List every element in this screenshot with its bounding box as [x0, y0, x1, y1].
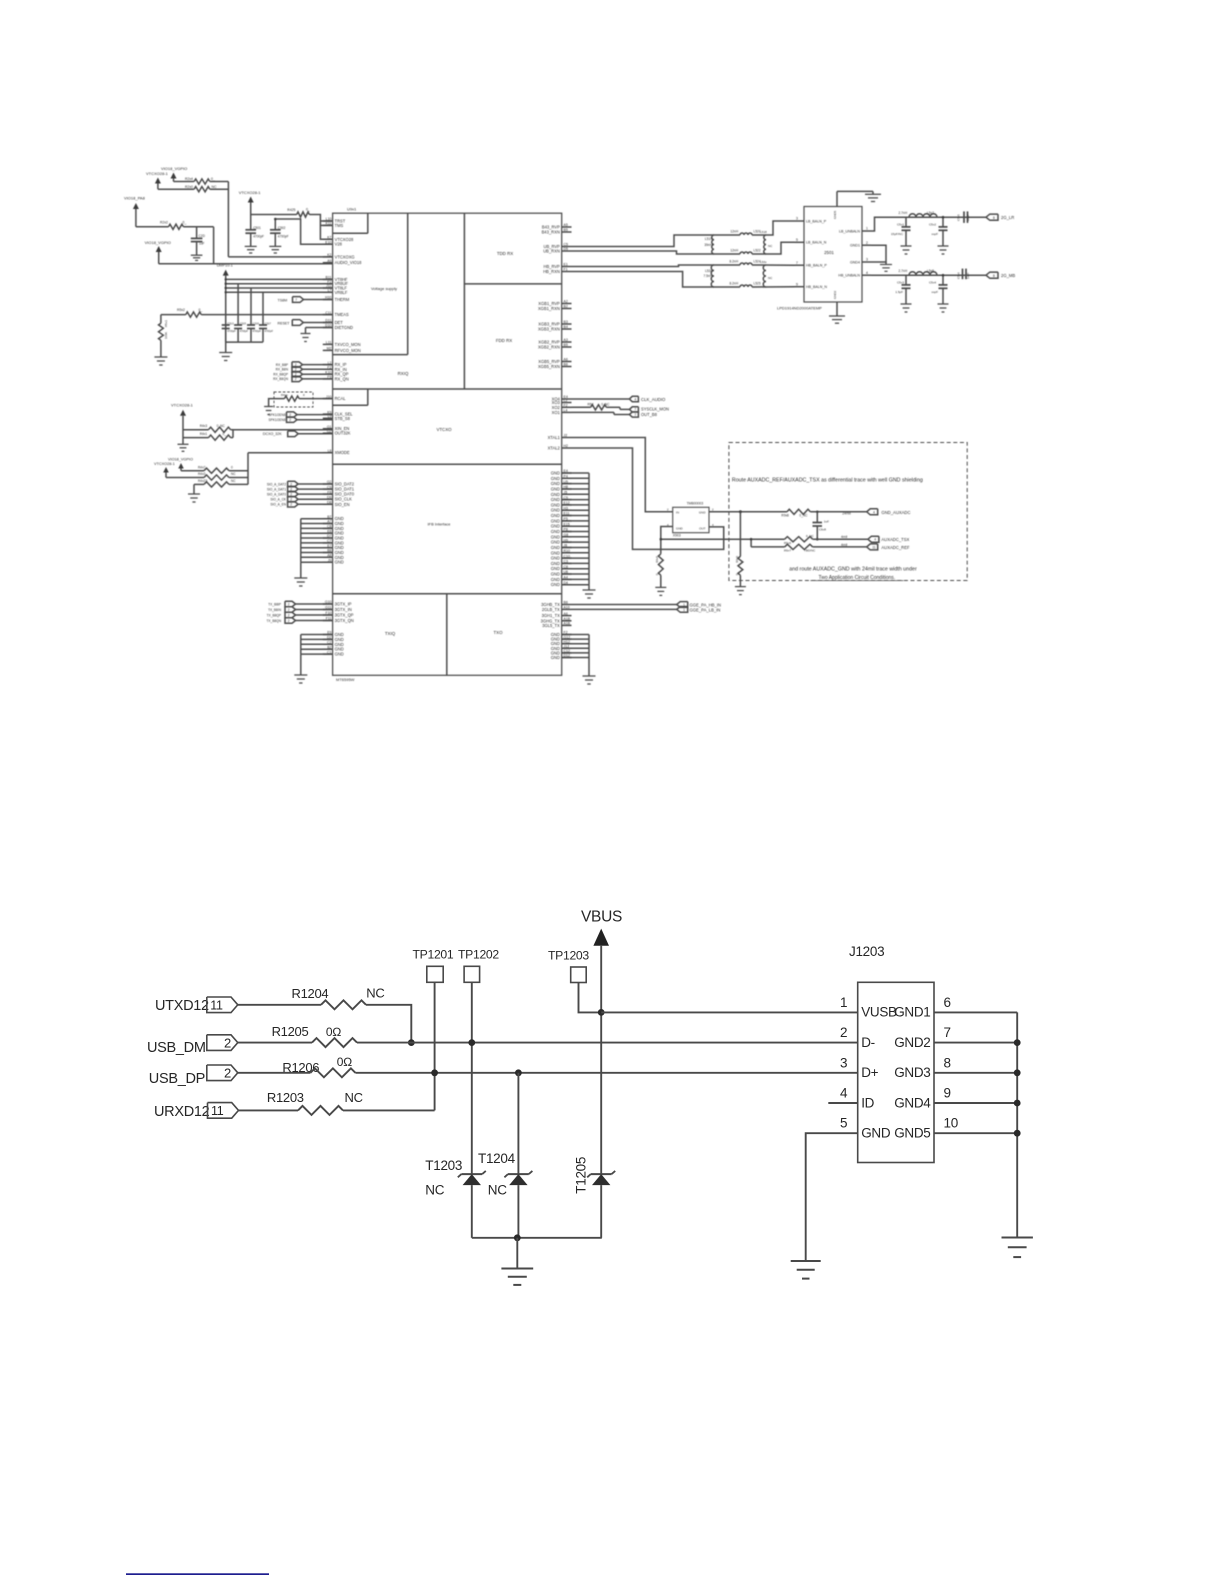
- svg-text:R425: R425: [287, 208, 295, 212]
- svg-text:B5: B5: [564, 228, 568, 232]
- cap bank value labels: [227, 321, 273, 333]
- svg-text:M2: M2: [327, 347, 332, 351]
- connector J1203 pin names: [861, 1005, 931, 1141]
- svg-text:AUXADC_REF: AUXADC_REF: [881, 545, 910, 550]
- svg-text:TP1203: TP1203: [548, 949, 589, 963]
- svg-text:11: 11: [210, 999, 223, 1013]
- resistor R4x7: [204, 468, 229, 473]
- ground under C2D: [191, 254, 203, 256]
- wire rail to R425: [251, 214, 297, 216]
- svg-text:GND2: GND2: [833, 290, 837, 299]
- series inductor L520 12nH top: [740, 233, 752, 235]
- resistor R4x3 b: [204, 475, 229, 480]
- svg-text:GND: GND: [551, 572, 560, 577]
- connector J1203 box: [858, 982, 934, 1162]
- flag GGE_PA_LB_IN: [677, 607, 688, 613]
- svg-text:SIO_A_EN: SIO_A_EN: [270, 503, 286, 507]
- svg-text:R9x7: R9x7: [784, 549, 791, 553]
- svg-text:0_NC: 0_NC: [217, 424, 226, 428]
- svg-text:3GL5_TX: 3GL5_TX: [542, 623, 560, 628]
- series inductor L525 8.2nH bottom: [740, 285, 752, 287]
- svg-text:GND1: GND1: [894, 1005, 930, 1020]
- svg-text:T1203: T1203: [425, 1158, 462, 1173]
- svg-text:LB_BALN_N: LB_BALN_N: [806, 241, 827, 245]
- svg-text:12nH: 12nH: [730, 248, 738, 252]
- svg-text:A1B: A1B: [564, 622, 571, 626]
- svg-text:2: 2: [224, 1035, 231, 1050]
- svg-text:GND: GND: [335, 560, 344, 565]
- ground cap bank: [219, 352, 232, 354]
- ground xmode: [194, 483, 204, 485]
- svg-text:TMS: TMS: [335, 223, 344, 228]
- svg-text:A9: A9: [327, 259, 331, 263]
- wire to R2x2: [136, 226, 169, 228]
- IC U901 left pin stubs, numbers and names: [323, 217, 362, 656]
- svg-text:TMB00003: TMB00003: [687, 502, 704, 506]
- connector J1203 pin numbers: [840, 995, 958, 1131]
- wire UTXD12 to R1204: [238, 1004, 321, 1006]
- svg-text:9: 9: [796, 282, 798, 286]
- wire XTAL1 to crystal IN: [572, 438, 673, 512]
- connector J1203 pin5 GND wire: [806, 1133, 858, 1261]
- wire R1204 down to USB_DM row: [366, 1005, 411, 1043]
- right GND bus wires: [562, 473, 589, 585]
- svg-text:4: 4: [840, 1086, 848, 1101]
- resistor R9x6 AUXADC_TSX: [785, 537, 813, 542]
- svg-text:4: 4: [874, 538, 876, 542]
- svg-text:TX_B8QP: TX_B8QP: [267, 613, 281, 617]
- wire to AUXADC_TSX flag: [813, 538, 868, 540]
- svg-text:1xpF: 1xpF: [966, 272, 970, 279]
- svg-text:TXIQ: TXIQ: [385, 631, 396, 636]
- svg-text:R1206: R1206: [282, 1060, 319, 1075]
- test point TP1202 stem: [471, 982, 473, 1174]
- wire R1203 to TP1201 stem: [343, 1109, 435, 1111]
- svg-text:B5: B5: [564, 343, 568, 347]
- svg-text:2: 2: [224, 1066, 231, 1081]
- svg-text:U9x1: U9x1: [347, 207, 357, 212]
- svg-text:4: 4: [866, 271, 868, 275]
- svg-text:GND5: GND5: [833, 210, 837, 219]
- svg-text:LPD1914ND2000ATEMP: LPD1914ND2000ATEMP: [777, 306, 822, 311]
- svg-text:0_: 0_: [211, 177, 215, 181]
- balun bottom GND2 pin to ground: [836, 302, 838, 316]
- junction diode bus: [514, 1234, 521, 1241]
- svg-text:R2x4: R2x4: [185, 177, 193, 181]
- svg-text:3GTX_QN: 3GTX_QN: [335, 618, 354, 623]
- flags SPK CLK_SEL STB: [268, 412, 332, 423]
- svg-text:4: 4: [634, 397, 636, 401]
- svg-text:VUSB: VUSB: [861, 1005, 897, 1020]
- svg-text:0: 0: [303, 393, 305, 397]
- svg-text:5: 5: [796, 238, 798, 242]
- svg-text:xxpF: xxpF: [931, 232, 938, 236]
- wire 3GHB_TX to GGE flag: [572, 604, 677, 606]
- svg-text:3GTX_QP: 3GTX_QP: [335, 613, 354, 618]
- svg-text:C5x5: C5x5: [957, 214, 961, 221]
- crystal oscillator X903 box: [673, 507, 709, 532]
- capacitor C5x3 shunt: [905, 275, 907, 285]
- wire L520 to balun pin3: [752, 221, 795, 235]
- svg-text:2: 2: [840, 1025, 847, 1040]
- resistor R1203: [298, 1106, 343, 1115]
- capacitor C5x1 shunt: [905, 217, 907, 227]
- svg-text:TS8M: TS8M: [278, 299, 288, 303]
- resistor R5x 0_NC clock: [572, 406, 591, 408]
- svg-text:L2: L2: [564, 399, 568, 403]
- svg-text:USB_DP: USB_DP: [149, 1071, 205, 1087]
- svg-text:L5x8: L5x8: [927, 269, 934, 273]
- svg-text:TX_B8IN: TX_B8IN: [268, 608, 282, 612]
- svg-text:HB_BALN_N: HB_BALN_N: [806, 285, 827, 289]
- svg-text:GND: GND: [551, 550, 560, 555]
- wire RCAL left to ground: [269, 399, 285, 407]
- svg-text:0_NC: 0_NC: [806, 534, 815, 538]
- junction T1204/USB_DP: [515, 1069, 522, 1076]
- svg-text:J1203: J1203: [849, 944, 884, 959]
- power arrow VIO18_VGPIO: [171, 173, 177, 179]
- series inductor L524 8.2nH top: [740, 263, 752, 265]
- svg-text:GND: GND: [551, 561, 560, 566]
- svg-text:GGE_PA_LB_IN: GGE_PA_LB_IN: [690, 607, 721, 612]
- ground under R9x9: [735, 586, 746, 588]
- svg-text:GND: GND: [676, 527, 684, 531]
- wire URXD12 to R1203: [239, 1109, 299, 1111]
- ground C5x4: [938, 303, 949, 305]
- svg-text:0Ω: 0Ω: [337, 1055, 352, 1069]
- svg-text:XGB1_RXN: XGB1_RXN: [538, 306, 560, 311]
- svg-text:2: 2: [712, 508, 714, 512]
- svg-text:R1205: R1205: [272, 1024, 309, 1039]
- svg-text:FDD RX: FDD RX: [496, 338, 512, 343]
- svg-text:3GTX_IP: 3GTX_IP: [335, 602, 352, 607]
- series inductor L5x8 2.7nH HB out: [909, 272, 937, 276]
- svg-text:D-: D-: [861, 1035, 875, 1050]
- svg-text:TP1202: TP1202: [458, 948, 499, 962]
- resistor R9x7 AUXADC_REF: [785, 544, 813, 549]
- ground under C2x1: [245, 245, 257, 247]
- flag GGE_PA_HB_IN: [677, 602, 688, 608]
- join vertical xin resistors: [232, 430, 234, 438]
- svg-text:GND: GND: [551, 497, 560, 502]
- svg-text:7.5nH: 7.5nH: [703, 274, 712, 278]
- svg-text:3GTX_IN: 3GTX_IN: [335, 607, 352, 612]
- svg-text:SPK1/2EN8: SPK1/2EN8: [268, 413, 285, 417]
- svg-text:C315: C315: [240, 321, 247, 325]
- wire HB_UNBALN output: [871, 274, 986, 276]
- IC U901 right pin stubs, numbers and names: [538, 223, 572, 660]
- svg-text:R4x3: R4x3: [198, 472, 206, 476]
- svg-text:2.7nH: 2.7nH: [898, 269, 907, 273]
- svg-text:L4: L4: [564, 409, 568, 413]
- wire USB_DM to J1203 pin2: [357, 1042, 858, 1044]
- wire HB_RXN to HB network: [572, 272, 741, 288]
- svg-text:NC: NC: [345, 1090, 363, 1105]
- wire down to AUDIO_VIO18 row: [213, 227, 215, 264]
- svg-text:GND: GND: [551, 492, 560, 497]
- capacitor C2x1: [250, 215, 252, 230]
- svg-text:xxpF: xxpF: [931, 290, 938, 294]
- svg-text:OUT_B8: OUT_B8: [641, 412, 658, 417]
- vertical from GND row to R9x9: [739, 512, 741, 557]
- flags TX_B8 inputs: [266, 601, 332, 623]
- ground right lower GND bus: [588, 658, 590, 677]
- series capacitor C5x5 LB: [963, 211, 965, 223]
- wire HB_RVP to HB network: [572, 265, 741, 267]
- svg-text:XGB5_RXN: XGB5_RXN: [538, 364, 560, 369]
- svg-text:GND: GND: [551, 655, 560, 660]
- test point TP1202 square: [464, 966, 480, 982]
- svg-text:RX_B8QN: RX_B8QN: [273, 377, 289, 381]
- svg-text:2: 2: [288, 619, 290, 623]
- svg-text:B6: B6: [564, 363, 568, 367]
- wire USB_DM to R1205: [238, 1042, 312, 1044]
- wires to R4x3/R4x1: [183, 429, 209, 431]
- svg-text:C316: C316: [253, 321, 260, 325]
- svg-text:4mil: 4mil: [841, 543, 847, 547]
- wire TMEAS row: [161, 314, 186, 316]
- svg-text:F1: F1: [564, 268, 568, 272]
- svg-text:C502: C502: [278, 226, 286, 230]
- svg-text:4700pF: 4700pF: [240, 330, 249, 333]
- svg-text:C5: C5: [564, 243, 569, 247]
- svg-text:12nH: 12nH: [730, 229, 738, 233]
- svg-text:G1: G1: [327, 425, 332, 429]
- capacitor C315: [234, 324, 242, 326]
- svg-text:RX_QN: RX_QN: [335, 376, 349, 381]
- svg-text:8.2nH: 8.2nH: [729, 281, 738, 285]
- svg-text:TXO: TXO: [493, 630, 503, 635]
- svg-text:SYSCLK_MON: SYSCLK_MON: [641, 407, 669, 412]
- wires to xmode resistors: [181, 470, 204, 472]
- flag output DSL_HB: [986, 272, 998, 278]
- svg-text:ID: ID: [861, 1095, 874, 1110]
- svg-text:4mil: 4mil: [841, 535, 847, 539]
- svg-text:7: 7: [944, 1025, 951, 1040]
- ground DIETGND: [301, 333, 311, 335]
- svg-text:4700pF: 4700pF: [253, 235, 264, 239]
- svg-text:R9x8: R9x8: [781, 514, 789, 518]
- svg-text:0_NC: 0_NC: [799, 514, 808, 518]
- svg-text:C317: C317: [265, 321, 272, 325]
- svg-text:NC: NC: [488, 1183, 507, 1198]
- svg-text:GND: GND: [551, 577, 560, 582]
- shunt inductor L518 NC: [764, 235, 766, 254]
- svg-text:XGB2_RXN: XGB2_RXN: [538, 345, 560, 350]
- svg-text:C313: C313: [227, 321, 234, 325]
- svg-text:R4x1: R4x1: [200, 432, 208, 436]
- svg-text:0_: 0_: [199, 308, 203, 312]
- test point TP1201 stem: [434, 982, 436, 1110]
- svg-text:2501: 2501: [824, 250, 834, 255]
- wire XTAL2 to crystal OUT: [572, 448, 724, 549]
- flag AUXADC_TSX: [868, 536, 879, 542]
- dashed box around RCAL resistor: [274, 392, 313, 407]
- ground C5x3: [901, 303, 912, 305]
- svg-text:URXD12: URXD12: [154, 1104, 210, 1120]
- svg-text:1uF: 1uF: [199, 241, 205, 245]
- capacitor C5x2 shunt: [942, 217, 944, 227]
- svg-text:GND: GND: [551, 481, 560, 486]
- wire crystal GND left down: [661, 527, 673, 554]
- svg-text:A6: A6: [564, 358, 568, 362]
- capacitor C5x4 shunt: [942, 275, 944, 285]
- wire XO1 to OUT_B8 flag: [572, 411, 615, 413]
- resistor R2x0 bottom: [194, 187, 210, 192]
- svg-text:NC: NC: [425, 1183, 444, 1198]
- svg-text:GND: GND: [551, 487, 560, 492]
- svg-text:SIO_A_CK: SIO_A_CK: [270, 498, 286, 502]
- resistor R4xx RCAL: [284, 396, 299, 401]
- svg-text:L519: L519: [705, 237, 712, 241]
- wire to IC AUDIO_VIO18: [159, 263, 333, 265]
- power arrow VTCXO28-1 (left): [155, 178, 161, 184]
- svg-text:R2x0: R2x0: [185, 185, 193, 189]
- capacitor C2x2: [274, 219, 276, 230]
- svg-text:R5x1: R5x1: [164, 320, 168, 327]
- svg-text:USB_DM: USB_DM: [147, 1040, 206, 1056]
- TVS diode T1205: [591, 1173, 612, 1175]
- wire AUXADC TSX row from crystal: [661, 538, 751, 540]
- junction VBUS/TP1203: [598, 1009, 605, 1016]
- svg-text:8: 8: [993, 216, 995, 220]
- left GND bus wires: [301, 519, 333, 563]
- svg-text:4700pF: 4700pF: [253, 330, 262, 333]
- wire R2x2 to corner: [183, 226, 213, 228]
- svg-text:C5x6: C5x6: [957, 272, 961, 279]
- svg-text:GND: GND: [551, 556, 560, 561]
- svg-text:10: 10: [944, 1116, 958, 1131]
- svg-text:L518: L518: [760, 230, 767, 234]
- svg-text:3: 3: [796, 217, 798, 221]
- svg-text:L11: L11: [326, 341, 332, 345]
- svg-text:18pF: 18pF: [966, 214, 970, 221]
- svg-text:A5: A5: [564, 223, 568, 227]
- balun right pins: [838, 227, 871, 278]
- svg-text:39nH: 39nH: [704, 243, 712, 247]
- test point TP1203 square: [571, 967, 587, 983]
- series inductor L5x7 2.7nH LB out: [909, 214, 937, 217]
- svg-text:2G_MB: 2G_MB: [1001, 273, 1015, 278]
- svg-text:TBD/NC: TBD/NC: [804, 549, 816, 553]
- svg-text:C5x1: C5x1: [897, 223, 904, 227]
- junctions J1203 ground bus: [1014, 1039, 1021, 1136]
- junction TP1202/USB_DM: [468, 1039, 475, 1046]
- resistor R2x2: [169, 224, 184, 229]
- svg-text:SIO_A_DAT0: SIO_A_DAT0: [267, 492, 286, 496]
- balun top GND5 pin to ground: [836, 191, 838, 206]
- ground balun bottom: [829, 315, 845, 317]
- svg-text:1: 1: [683, 608, 685, 612]
- svg-text:3: 3: [866, 258, 868, 262]
- svg-text:TX_B8QN: TX_B8QN: [266, 619, 281, 623]
- svg-text:OUT32K: OUT32K: [335, 431, 351, 436]
- power arrow VTCXO28-1 mid: [248, 197, 254, 203]
- shunt inductor L519 39nH: [712, 235, 714, 254]
- svg-text:TX_B8IP: TX_B8IP: [268, 602, 281, 606]
- svg-text:100K: 100K: [164, 332, 168, 339]
- wire VBUS to J1203 pin1: [601, 1011, 858, 1013]
- wire crystal GND right row 24mil: [709, 511, 787, 513]
- svg-text:A1B: A1B: [564, 617, 571, 621]
- svg-text:9: 9: [944, 1086, 951, 1101]
- wire UB_RVP to LB network: [572, 235, 741, 247]
- svg-text:11: 11: [872, 545, 876, 549]
- svg-text:IN: IN: [676, 511, 679, 515]
- svg-text:3: 3: [840, 1055, 847, 1070]
- balun left pins: [795, 217, 827, 290]
- wire resistors to IC VTCXOXG: [210, 181, 229, 183]
- svg-text:GND: GND: [551, 545, 560, 550]
- svg-text:RX_B8QP: RX_B8QP: [273, 373, 288, 377]
- svg-text:0_: 0_: [223, 432, 227, 436]
- connector J1203 pin4 ID stub: [828, 1102, 857, 1104]
- svg-text:0_: 0_: [655, 572, 659, 576]
- svg-text:2: 2: [288, 602, 290, 606]
- svg-text:GND: GND: [551, 471, 560, 476]
- connector J1203 right ground bus: [934, 1011, 1017, 1013]
- svg-text:1.5pF: 1.5pF: [895, 290, 903, 294]
- svg-text:7: 7: [295, 298, 297, 302]
- svg-text:2.7nH: 2.7nH: [898, 211, 907, 215]
- resistor R1204: [321, 1000, 366, 1009]
- svg-text:1: 1: [866, 227, 868, 231]
- svg-text:TP1201: TP1201: [413, 948, 454, 962]
- svg-text:R9x5: R9x5: [655, 556, 659, 563]
- svg-text:B2: B2: [564, 305, 568, 309]
- svg-text:X903: X903: [673, 534, 681, 538]
- resistor R1205: [312, 1038, 357, 1047]
- junctions VT rows: [225, 278, 227, 280]
- flags SIO SIM interface: [267, 481, 333, 507]
- junction TP1201-stem/USB_DP: [431, 1069, 438, 1076]
- wire arrow to R2x4 row: [158, 188, 194, 190]
- diode bus ground stem: [516, 1238, 518, 1269]
- svg-text:C501: C501: [253, 226, 261, 230]
- svg-text:XMODE: XMODE: [335, 450, 350, 455]
- svg-text:4700pF: 4700pF: [278, 235, 289, 239]
- power arrow VIO18_VGPIO 2: [156, 246, 162, 252]
- ground J1203 pin5: [791, 1260, 821, 1262]
- svg-text:R4x7: R4x7: [198, 465, 206, 469]
- svg-text:UTXD12: UTXD12: [155, 998, 209, 1014]
- wire R4x3 to IC XIN_EN: [233, 429, 333, 431]
- svg-text:VTCXO28-1: VTCXO28-1: [171, 403, 194, 408]
- svg-text:GND4: GND4: [894, 1095, 931, 1110]
- wire XO4 to CLK_AUDIO flag: [572, 398, 630, 400]
- flag CLK_AUDIO: [629, 396, 638, 401]
- wire 2GLB_TX to GGE flag: [572, 608, 677, 610]
- svg-text:TXVCO_MON: TXVCO_MON: [335, 342, 361, 347]
- svg-text:4700pF: 4700pF: [265, 330, 274, 333]
- IC U901 block name labels: [371, 251, 513, 636]
- svg-text:R5X: R5X: [588, 403, 595, 407]
- capacitor C316: [247, 324, 255, 326]
- svg-text:RXIQ: RXIQ: [398, 371, 409, 376]
- wire TSX row to resistor: [751, 538, 785, 540]
- balun GND1/GND4 to ground: [871, 245, 886, 262]
- power arrow xmode A: [178, 463, 184, 469]
- svg-text:SIO_A_DAT1: SIO_A_DAT1: [267, 487, 286, 491]
- ground under R9x5: [655, 586, 666, 588]
- svg-text:AUDIO_VIO18: AUDIO_VIO18: [335, 260, 363, 265]
- svg-text:4: 4: [873, 510, 875, 514]
- svg-text:DCXO_32K: DCXO_32K: [263, 432, 282, 436]
- ground C5x2: [938, 245, 949, 247]
- svg-text:R5x2: R5x2: [177, 308, 185, 312]
- ground right GND bus: [588, 585, 590, 590]
- cap bank risers: [237, 284, 239, 325]
